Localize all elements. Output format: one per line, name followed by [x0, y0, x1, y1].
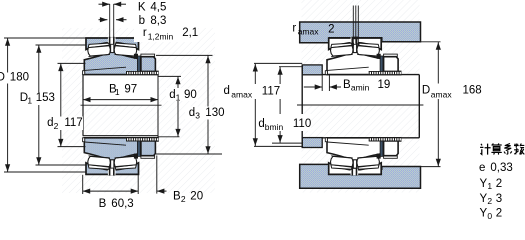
svg-text:1: 1 — [487, 181, 492, 191]
svg-text:90: 90 — [184, 89, 197, 101]
svg-text:Y: Y — [480, 178, 488, 190]
svg-text:2: 2 — [487, 196, 492, 206]
svg-text:2: 2 — [328, 23, 334, 35]
svg-text:1: 1 — [115, 87, 120, 97]
svg-text:bmin: bmin — [265, 122, 284, 132]
svg-text:D: D — [422, 85, 430, 97]
svg-text:2,1: 2,1 — [182, 27, 198, 39]
svg-text:60,3: 60,3 — [111, 198, 133, 210]
svg-text:B: B — [343, 79, 351, 91]
svg-text:2: 2 — [496, 178, 502, 190]
svg-text:amax: amax — [298, 27, 320, 37]
svg-text:Y: Y — [480, 193, 488, 205]
svg-text:110: 110 — [293, 118, 311, 130]
svg-text:0: 0 — [487, 211, 492, 221]
svg-text:2: 2 — [54, 121, 59, 131]
svg-text:d: d — [47, 117, 53, 129]
svg-text:K: K — [138, 2, 146, 14]
svg-text:B: B — [99, 198, 107, 210]
svg-text:180: 180 — [10, 72, 29, 84]
svg-text:97: 97 — [124, 84, 137, 96]
svg-text:amax: amax — [231, 90, 253, 100]
svg-text:e: e — [479, 162, 485, 174]
svg-text:1,2min: 1,2min — [148, 32, 174, 42]
svg-text:3: 3 — [496, 193, 502, 205]
svg-text:1: 1 — [27, 96, 32, 106]
svg-text:19: 19 — [378, 79, 391, 91]
svg-text:r: r — [292, 22, 296, 34]
svg-text:0,33: 0,33 — [490, 162, 512, 174]
svg-text:130: 130 — [205, 107, 224, 119]
svg-text:b: b — [139, 15, 145, 27]
svg-text:20: 20 — [190, 190, 203, 202]
svg-text:d: d — [224, 85, 230, 97]
svg-text:B: B — [173, 190, 181, 202]
svg-text:D: D — [0, 72, 5, 84]
svg-text:r: r — [143, 27, 147, 39]
svg-text:168: 168 — [463, 85, 482, 97]
svg-text:3: 3 — [195, 111, 200, 121]
svg-text:117: 117 — [64, 117, 82, 129]
svg-text:amin: amin — [351, 83, 370, 93]
svg-text:1: 1 — [176, 92, 181, 102]
svg-text:Y: Y — [480, 208, 488, 220]
svg-text:2: 2 — [181, 194, 186, 204]
svg-text:4,5: 4,5 — [150, 2, 166, 14]
svg-text:amax: amax — [431, 90, 453, 100]
svg-text:117: 117 — [262, 85, 280, 97]
svg-text:8,3: 8,3 — [150, 15, 166, 27]
svg-text:2: 2 — [496, 208, 502, 220]
svg-text:153: 153 — [36, 92, 55, 104]
